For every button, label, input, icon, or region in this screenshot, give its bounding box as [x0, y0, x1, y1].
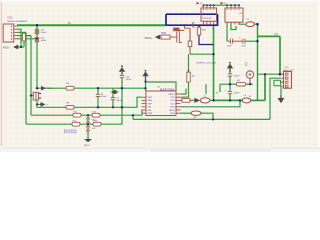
LED D1 circle — [246, 71, 253, 78]
junction dot pack- — [20, 46, 22, 48]
svg-text:MOLEX-2.54MM-6P: MOLEX-2.54MM-6P — [8, 21, 28, 23]
port box green — [274, 80, 281, 85]
wire PACK- stub — [18, 46, 24, 48]
wire PACK pin long — [181, 100, 241, 106]
capacitor C16 x122 — [120, 75, 124, 77]
wire zener column to gnd — [87, 131, 89, 139]
wire ferrite row right — [251, 99, 265, 101]
wire CHG pin lead — [181, 99, 183, 101]
junction dot q1 drain — [36, 87, 38, 89]
resistor R row C right — [93, 122, 101, 126]
resistor R row B right — [92, 113, 100, 117]
junction dot x213 y100 — [212, 99, 214, 101]
wire CN2 pin2 — [17, 29, 21, 47]
svg-text:10uF: 10uF — [241, 46, 246, 48]
wire chain lead2 — [233, 40, 243, 42]
wire zener column top — [87, 115, 89, 118]
wire gnd column x281 — [280, 86, 282, 96]
wire navy vertical x217 — [217, 14, 219, 26]
svg-text:100nF: 100nF — [41, 40, 47, 42]
junction dot row B drop — [132, 114, 134, 116]
wire row D — [133, 118, 270, 120]
svg-text:BUDDY9306: BUDDY9306 — [160, 89, 175, 92]
wire y74 to CN3 — [258, 73, 284, 75]
svg-text:100nF: 100nF — [116, 100, 122, 102]
wire supply loop to IC top right — [146, 82, 177, 91]
junction dot row D x213 — [212, 118, 214, 120]
junction dot pin5 — [36, 38, 38, 40]
svg-text:24TRICK_12V-0-HB: 24TRICK_12V-0-HB — [196, 63, 216, 65]
resistor R row C left — [72, 122, 80, 126]
wire supply drop x145 — [145, 82, 147, 92]
wire B+ branch y36 — [258, 35, 281, 37]
inductor L2 — [200, 98, 210, 103]
svg-text:100nF: 100nF — [126, 79, 132, 81]
svg-text:R30: R30 — [162, 32, 167, 35]
svg-text:100nF: 100nF — [101, 96, 107, 98]
wire navy R199 top stub — [198, 25, 200, 27]
wire supply column x230 c — [229, 94, 231, 101]
wire B+ main bus — [17, 24, 166, 26]
wire R188 column — [188, 54, 190, 72]
resistor R y107 — [66, 105, 74, 109]
label IC left pins — [148, 97, 153, 115]
ferrite L3 — [242, 98, 250, 103]
svg-text:PMOS: PMOS — [168, 94, 175, 96]
svg-text:SDA: SDA — [148, 112, 153, 115]
junction dot x113 y107 — [112, 106, 114, 108]
arrow CHG right — [194, 98, 200, 103]
junction dot x213 y54 — [212, 53, 214, 55]
wire stub x206 — [205, 84, 207, 94]
wire top pin bus y5 — [204, 4, 240, 6]
ground arrow x281 — [278, 96, 285, 104]
junction dot z1 top — [87, 114, 89, 116]
wire VDD row y88 — [37, 87, 146, 89]
transistor Q1 — [33, 92, 41, 100]
junction dot c98 bottom — [97, 106, 99, 108]
svg-text:VDD: VDD — [148, 97, 153, 99]
wire IC2 pin to fuse — [239, 22, 246, 24]
junction dot fuse out — [256, 23, 259, 26]
svg-text:B+: B+ — [275, 33, 279, 36]
svg-text:PACK+: PACK+ — [47, 87, 55, 90]
resistor R30 — [161, 35, 170, 39]
wire R bottom link — [23, 41, 25, 47]
svg-text:PACK-: PACK- — [84, 144, 91, 147]
junction dot IC2 top pins — [226, 4, 228, 6]
fuse F1 — [246, 22, 255, 27]
transistor Q2 — [170, 25, 190, 43]
svg-text:PACK+: PACK+ — [145, 37, 153, 40]
capacitor C x230 top — [228, 74, 232, 76]
wire chain drop x227 — [226, 22, 228, 41]
net flag B+ left — [197, 2, 200, 5]
diode D on rail — [188, 41, 192, 47]
ground PACK- x88 — [84, 138, 92, 142]
capacitor C x98 — [96, 94, 100, 96]
junction dot y88 end — [144, 87, 146, 89]
svg-text:CN2: CN2 — [8, 16, 14, 19]
junction dot chain y41 — [256, 40, 258, 42]
wire Q1 gate stub — [31, 95, 34, 97]
connector CN2 — [3, 24, 17, 42]
junction dot circle drop — [249, 83, 251, 85]
wire row B drop to row D — [132, 115, 134, 119]
wire navy bus left link — [165, 14, 167, 25]
wire green port stub — [281, 81, 284, 83]
junction dot IC1 top pins — [203, 4, 205, 6]
wire x122 link — [121, 78, 123, 108]
junction dot x122 y107 — [121, 106, 123, 108]
resistor R x24 — [23, 33, 26, 41]
capacitor C x113 — [111, 98, 115, 100]
wire R188 to pin — [181, 82, 189, 97]
svg-text:PACK: PACK — [169, 109, 175, 112]
capacitor C14 — [35, 37, 39, 42]
wire circle drop — [249, 78, 251, 84]
svg-text:SRP: SRP — [148, 103, 153, 105]
arrow net left x113 — [111, 90, 119, 95]
wire pin PMOS stub — [181, 89, 187, 95]
junction dot x240 y100 — [239, 99, 241, 101]
wire thick x265 — [264, 74, 266, 100]
wire cap column x37 — [36, 25, 38, 88]
capacitor C chain left — [231, 39, 233, 44]
wire stub x220 — [219, 84, 221, 92]
svg-text:PACK-: PACK- — [3, 46, 10, 49]
wire navy bus bottom — [166, 24, 218, 26]
svg-text:SRN: SRN — [148, 100, 153, 102]
resistor R188 — [187, 72, 190, 82]
IC U1 top left — [201, 5, 217, 25]
svg-text:10uF: 10uF — [227, 46, 232, 48]
wire CN2 pin4 — [17, 35, 31, 37]
wire drain rail x190 — [189, 28, 191, 54]
svg-text:100nF: 100nF — [41, 32, 47, 34]
junction dot x265 y74 — [264, 73, 266, 75]
power flag x145 — [142, 70, 148, 82]
svg-text:PACK-OUT: PACK-OUT — [283, 69, 294, 72]
wire supply column x230 b — [229, 76, 231, 91]
connector CN3 — [281, 72, 292, 89]
wire chain lead3 — [245, 40, 258, 42]
junction dot x122 y88 — [121, 87, 123, 89]
junction dot c98 top — [97, 87, 99, 89]
wire cap x113 bottom — [112, 100, 114, 107]
zener VD1 — [86, 118, 89, 123]
wire zener column mid — [87, 123, 89, 126]
resistor R ellipse y113 — [191, 111, 201, 115]
wire CN2 pin5 — [17, 38, 37, 40]
wire navy R199 link — [199, 35, 214, 45]
wire x280 drop — [279, 36, 281, 74]
junction dot z1 bottom — [87, 123, 89, 125]
wire chain lead1 — [227, 40, 230, 42]
capacitor C chain right — [243, 39, 245, 44]
wire after R to arrow — [190, 99, 194, 101]
junction dot Q2 top on bus — [183, 24, 185, 26]
net flag B+ right — [221, 2, 224, 5]
wire supply column x230 a — [229, 67, 231, 74]
junction dot x230 y84 — [229, 83, 231, 85]
wire vertical x26 — [25, 32, 27, 124]
frame edge line — [0, 2, 2, 146]
wire x257 vertical — [257, 24, 259, 100]
wire cap x113 top — [112, 88, 114, 97]
svg-text:B+: B+ — [68, 22, 72, 25]
bottom scrollbar strip — [0, 148, 320, 152]
junction dot bus x37 — [36, 24, 38, 26]
wire x270 riser — [270, 78, 281, 119]
svg-text:TPS21201: TPS21201 — [202, 18, 213, 20]
svg-text:BQ77(2kOhm): BQ77(2kOhm) — [64, 132, 77, 134]
wire arrow2 stub — [37, 103, 41, 105]
wire thick x213 — [213, 26, 215, 100]
wire ferrite row left — [214, 99, 243, 101]
wire row A from Q1 source — [37, 97, 142, 107]
svg-text:DSG: DSG — [170, 113, 175, 115]
junction dot x280 y74 — [279, 73, 282, 76]
resistor R y84 — [237, 82, 246, 86]
capacitor C13 — [35, 29, 39, 34]
resistor R y88 — [66, 86, 74, 90]
power flag x122 — [119, 65, 125, 73]
IC U2 top right — [225, 5, 243, 24]
arrow PACK- left — [13, 45, 18, 50]
capacitor C x230 bottom — [228, 92, 232, 94]
wire row C — [26, 107, 122, 124]
wire cap x98 bottom — [97, 97, 99, 108]
wire chain y84 right — [246, 83, 254, 85]
wire R ellipse to row D — [201, 113, 213, 119]
arrow PACK+ q1 — [41, 86, 46, 91]
wire fuse to junction — [254, 23, 257, 25]
wire drain row y54 — [190, 53, 214, 55]
junction dot IC1 bottom pins on navy bus — [203, 24, 205, 26]
junction dot x230 y100 — [229, 99, 231, 101]
resistor R199 — [197, 27, 200, 35]
junction dot x37 y104 — [36, 103, 38, 105]
svg-text:100nF: 100nF — [234, 92, 240, 94]
junction dot supply x145 — [144, 80, 146, 82]
svg-text:CN3: CN3 — [284, 67, 289, 69]
wire chain y84 left — [220, 83, 237, 85]
arrow PACK+ mid — [155, 35, 160, 40]
label IC right pins — [168, 94, 175, 115]
svg-text:100nF: 100nF — [234, 76, 240, 78]
svg-text:CHG: CHG — [170, 107, 175, 109]
wire navy bus top — [166, 13, 218, 15]
resistor R y100 small — [182, 99, 190, 103]
svg-text:10k: 10k — [192, 76, 195, 78]
wire row B — [31, 110, 142, 115]
diode arch near U1 — [192, 22, 194, 27]
wire cap x98 top — [97, 88, 99, 94]
resistor R row B left — [73, 113, 81, 117]
wire IC2 bottom jog — [231, 22, 236, 29]
power flag x230 — [227, 62, 233, 72]
wire CN2 pin3 — [17, 31, 26, 33]
zener VD2 — [86, 126, 89, 131]
junction dot R199 top — [198, 25, 200, 27]
svg-text:10k: 10k — [27, 36, 30, 38]
op-amp U3 main IC — [142, 91, 181, 116]
wire vertical x31 — [30, 36, 32, 116]
canvas background — [0, 0, 320, 152]
wire DSG pin lead — [181, 112, 192, 114]
junction dot q1 gate — [30, 94, 32, 96]
wire L2 to x213 — [210, 99, 214, 101]
arrow net q1 lower — [41, 102, 46, 107]
svg-text:1k: 1k — [249, 96, 251, 98]
